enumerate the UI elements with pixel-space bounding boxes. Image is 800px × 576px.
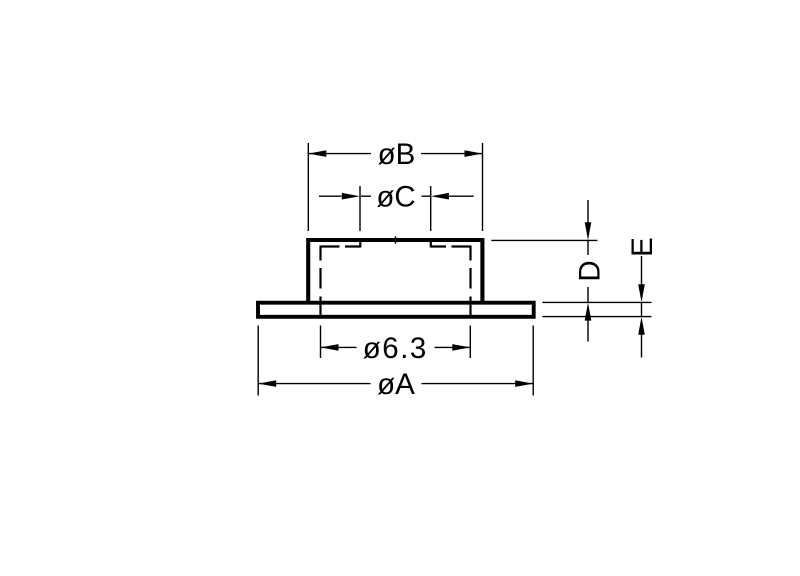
extension line oA right — [532, 326, 534, 396]
hidden bore left vertical (dashed) — [319, 247, 321, 317]
arrowhead oB right — [465, 150, 483, 157]
extension line flange top right — [542, 301, 651, 303]
extension line o6.3 right — [469, 326, 471, 359]
svg-text:D: D — [573, 260, 606, 281]
arrowhead D bottom — [585, 303, 592, 321]
svg-text:øB: øB — [378, 138, 416, 171]
extension line o6.3 left — [320, 326, 322, 359]
dimension line oC (arrows outside) — [319, 195, 474, 197]
hidden bore top left horizontal (dashed) — [320, 245, 361, 247]
dimension line o6.3 — [321, 346, 471, 348]
svg-text:ø6.3: ø6.3 — [363, 332, 428, 365]
arrowhead oC left — [342, 193, 360, 200]
hidden bore top right horizontal (dashed) — [431, 245, 472, 247]
arrowhead o6.3 right — [452, 344, 470, 351]
hidden bore left step-up — [359, 241, 361, 248]
dimension line E (vertical, arrows outside) — [641, 256, 643, 358]
hidden bore right step-up — [430, 241, 432, 248]
arrowhead o6.3 left — [321, 344, 339, 351]
flange outline (part cross-section, thick) — [258, 303, 534, 317]
extension line oB right — [482, 143, 484, 231]
extension line oB left — [307, 143, 309, 231]
center mark tick on body top — [395, 236, 397, 243]
arrowhead oC right — [431, 193, 449, 200]
arrowhead oA left — [258, 380, 276, 387]
extension line oA left — [257, 326, 259, 396]
arrowhead E bottom — [638, 317, 645, 335]
extension line oC left — [359, 186, 361, 231]
extension line D top (from body top) — [491, 239, 597, 241]
extension line oC right — [430, 186, 432, 231]
arrowhead E top — [638, 284, 645, 302]
svg-text:øA: øA — [377, 368, 415, 401]
dimension line oA — [258, 383, 533, 385]
svg-text:øC: øC — [376, 181, 415, 214]
arrowhead oB left — [308, 150, 326, 157]
arrowhead D top — [585, 222, 592, 240]
body outline (cap on flange, thick) — [308, 240, 482, 302]
dimension line oB — [308, 153, 482, 155]
hidden bore right vertical (dashed) — [469, 247, 471, 317]
svg-text:E: E — [626, 237, 659, 257]
arrowhead oA right — [515, 380, 533, 387]
dimension line D (vertical, arrows outside) — [587, 200, 589, 342]
extension line flange bottom right — [542, 316, 651, 318]
